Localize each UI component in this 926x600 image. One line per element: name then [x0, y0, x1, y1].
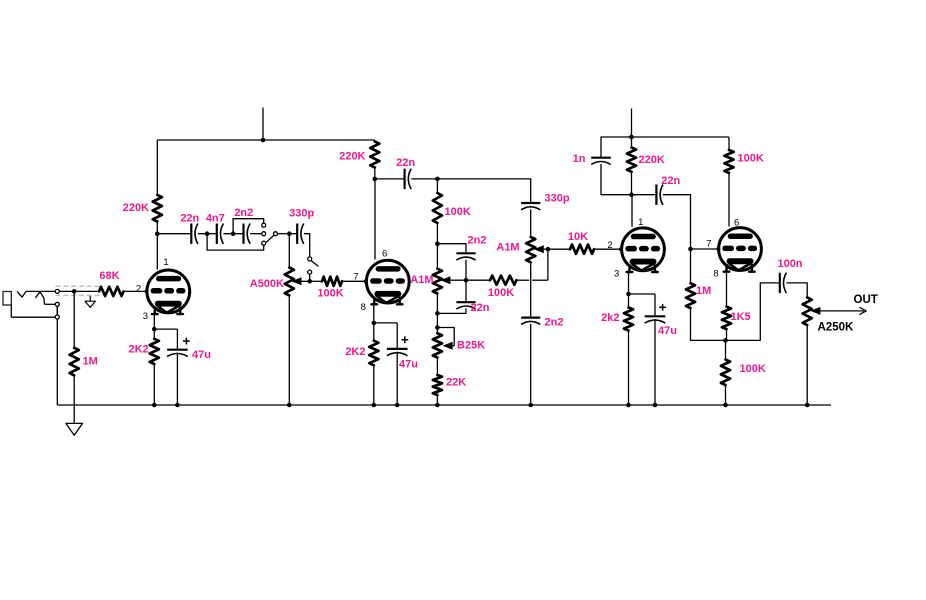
node A500K wiper	[307, 279, 312, 284]
potentiometer A250K	[803, 297, 812, 325]
wire 330p to switch	[304, 234, 310, 257]
wiper A500K	[292, 277, 302, 285]
wire tone mid1	[436, 223, 438, 244]
wire 2n2 branch top	[437, 244, 466, 253]
resistor 220K V3	[627, 148, 636, 172]
svg-text:1M: 1M	[83, 356, 98, 368]
wire 4n7-2n2	[223, 233, 242, 235]
resistor 100K V4 lower	[721, 360, 730, 386]
wire input node	[59, 290, 99, 292]
wire 100K to V2 grid	[342, 280, 365, 282]
wire V1 plate to 22n	[158, 233, 190, 235]
wire 2n2 tone bottom	[530, 324, 532, 405]
wire jack sleeve return	[10, 305, 12, 317]
node tone top	[435, 177, 440, 182]
capacitor 2n2 tone	[521, 317, 540, 319]
wiper A250K out	[810, 307, 820, 315]
svg-text:22n: 22n	[471, 302, 490, 314]
node B+ right	[629, 135, 634, 140]
arrow OUT head	[859, 307, 866, 314]
svg-text:2n2: 2n2	[234, 207, 253, 219]
node V4 grid entry	[716, 247, 720, 251]
wire plate to 22n V3	[632, 194, 656, 196]
capacitor 330p tone	[521, 202, 540, 204]
wire ring-sleeve link	[56, 306, 58, 315]
wire 1n branch	[600, 137, 603, 157]
capacitor 47u V1	[167, 349, 188, 351]
svg-text:2K2: 2K2	[129, 344, 149, 356]
node rail A500K	[287, 403, 292, 408]
svg-text:A1M: A1M	[410, 274, 433, 286]
wire 47u V1 bottom	[176, 353, 178, 406]
node V2 plate	[373, 177, 378, 182]
node V4 grid	[688, 247, 693, 252]
wire 100K V4 leads	[728, 137, 730, 150]
svg-text:100K: 100K	[740, 363, 766, 375]
wire jack ground drop	[56, 319, 58, 405]
svg-text:2: 2	[607, 240, 612, 251]
wire B+ rail left	[157, 139, 374, 141]
svg-text:OUT: OUT	[854, 294, 878, 306]
node rail 100K V4	[723, 403, 728, 408]
svg-text:A500K: A500K	[250, 278, 284, 290]
wire 1K5 bottom	[726, 329, 728, 340]
wire 1M bottom	[73, 375, 75, 405]
svg-text:22K: 22K	[446, 377, 466, 389]
svg-text:330p: 330p	[545, 193, 570, 205]
node V2 cathode	[372, 321, 377, 326]
tube V3 triode	[622, 228, 665, 272]
svg-text:1n: 1n	[573, 153, 586, 165]
svg-text:2K2: 2K2	[345, 346, 365, 358]
svg-text:10K: 10K	[568, 231, 588, 243]
wire jack tip to contact	[26, 290, 55, 292]
switch S1 lever	[266, 236, 273, 243]
wire V1 cathode pin3	[153, 314, 155, 329]
wire wiper node to 100K mid	[466, 279, 490, 281]
svg-text:220K: 220K	[339, 151, 365, 163]
resistor 220K V1	[153, 195, 162, 222]
svg-text:A1M: A1M	[496, 242, 519, 254]
wire out branch	[726, 283, 780, 341]
wire ground rail	[57, 404, 831, 406]
node rail 2k2 V3	[626, 403, 631, 408]
svg-text:68K: 68K	[99, 270, 119, 282]
wire to 330p	[289, 233, 296, 235]
wire 2K2 V1 bottom	[153, 364, 155, 405]
svg-text:2n2: 2n2	[545, 317, 564, 329]
node rail 47u V2	[395, 403, 400, 408]
capacitor 2n2 bright	[242, 224, 244, 244]
switch S1 contact top	[262, 223, 266, 227]
svg-text:1: 1	[163, 257, 168, 268]
wire volume top lead	[288, 234, 290, 268]
resistor 100K tone	[433, 193, 442, 223]
wire 47u V2 bottom	[396, 352, 398, 405]
wire 22n V3 to V4 grid	[663, 195, 691, 249]
wire V4 cathode pin8	[726, 272, 728, 307]
svg-text:6: 6	[382, 249, 387, 260]
capacitor 2n2 treble	[456, 252, 475, 254]
wire 10K to V3 grid	[594, 248, 621, 250]
wire B+ stub right	[631, 109, 633, 138]
svg-text:4n7: 4n7	[206, 213, 225, 225]
svg-text:100K: 100K	[488, 287, 514, 299]
potentiometer A1M treble	[433, 269, 442, 294]
node V1 cathode	[152, 327, 157, 332]
svg-text:7: 7	[353, 271, 358, 282]
wire 2k2 V3 top	[628, 294, 630, 308]
wire B25K-22K	[436, 358, 438, 376]
svg-text:1M: 1M	[696, 285, 711, 297]
wire 22n mid bottom	[437, 309, 466, 314]
wire tone 100K top	[436, 179, 438, 193]
svg-text:2k2: 2k2	[601, 312, 619, 324]
node V1 grid entry	[145, 289, 149, 293]
wire 47u V2 branch	[374, 322, 397, 324]
svg-text:47u: 47u	[658, 325, 677, 337]
wire cathode jog	[726, 339, 727, 341]
svg-text:1K5: 1K5	[731, 311, 751, 323]
svg-text:47u: 47u	[399, 359, 418, 371]
wire 47u V3 branch	[629, 293, 656, 295]
input jack tip contact	[17, 291, 26, 297]
wire 330p to A1M mid	[530, 209, 532, 237]
resistor 2K2 V1	[150, 339, 159, 364]
wire 2k2 V3 bottom	[628, 331, 630, 406]
tube V1 triode	[147, 270, 190, 314]
wire 2K2 V2 bottom	[373, 365, 375, 405]
svg-text:6: 6	[734, 218, 739, 229]
node rail 2n2 tone	[528, 403, 533, 408]
node rail 22K	[435, 403, 440, 408]
wire grid entry V4	[691, 248, 719, 250]
wire V2 plate pin6	[374, 179, 376, 260]
node rail 2K2 V1	[152, 403, 157, 408]
capacitor 4n7 bright	[216, 224, 218, 244]
wire wiper to 10K	[550, 248, 570, 250]
node rail A250K	[805, 403, 810, 408]
svg-text:100n: 100n	[777, 258, 802, 270]
node B25K top	[435, 325, 440, 330]
wire jack switch to terminal	[45, 303, 56, 305]
svg-text:47u: 47u	[192, 349, 211, 361]
node V2 grid entry	[364, 279, 368, 283]
node A bright	[205, 231, 210, 236]
wire bypass bottom	[207, 234, 264, 250]
capacitor 22n bass	[456, 301, 475, 303]
wiper A1M treble	[440, 276, 450, 284]
wire 2K2 V2 top	[373, 323, 375, 341]
wire 100K V4 lower bottom	[725, 385, 727, 405]
wire V2 plate jog	[374, 178, 377, 180]
node A1M mid wiper	[546, 247, 551, 252]
wire volume bottom	[288, 296, 290, 406]
svg-text:7: 7	[706, 238, 711, 249]
svg-text:22n: 22n	[180, 213, 199, 225]
capacitor 330p bright	[296, 224, 298, 244]
tube V2 triode	[366, 260, 409, 304]
resistor 100K V4 plate	[724, 150, 733, 173]
wire 2K2 V1 top	[153, 329, 155, 339]
wire 100K V4 lower top	[725, 340, 727, 359]
shield dashed lower	[56, 294, 100, 296]
node rail 2K2 V2	[372, 403, 377, 408]
wire 2n2 to wiper node	[465, 260, 467, 281]
wire bypass top	[233, 219, 264, 234]
capacitor 22n coupling V2	[404, 169, 406, 189]
wire 1M top	[73, 291, 75, 347]
wire tone top right	[437, 179, 530, 203]
jack terminal ring	[55, 302, 59, 306]
svg-text:220K: 220K	[639, 154, 665, 166]
capacitor 22n bright	[190, 224, 192, 244]
svg-text:100K: 100K	[738, 153, 764, 165]
node treble top	[435, 241, 440, 246]
wire 1M V4 leads	[690, 249, 692, 283]
svg-text:8: 8	[713, 268, 718, 279]
wire wiper to 22n mid	[465, 280, 467, 302]
wire plate to 22n V2	[375, 178, 404, 180]
wire V3 plate pin1	[631, 195, 633, 227]
potentiometer A1M mid	[526, 237, 535, 262]
wire A1M treble top lead	[436, 244, 438, 269]
resistor 2K2 V2	[369, 341, 378, 366]
wire A250K bottom	[806, 325, 808, 405]
switch S2 lever	[311, 261, 318, 267]
wiper A1M mid	[534, 245, 544, 253]
wire 22n V2 to tone	[411, 178, 437, 180]
node treble bottom	[435, 311, 440, 316]
shield dashed upper	[56, 285, 100, 287]
resistor 10K	[570, 245, 594, 254]
tube V4 triode	[719, 228, 762, 272]
svg-text:A250K: A250K	[818, 322, 854, 334]
node V3 grid entry	[619, 247, 623, 251]
svg-text:100K: 100K	[317, 287, 343, 299]
input jack switching contact	[36, 292, 45, 305]
wire 22n-4n7	[198, 233, 216, 235]
wire V2 cathode pin8	[373, 305, 375, 323]
node V3 cathode	[626, 292, 631, 297]
wire wiper to 100K	[310, 280, 322, 282]
svg-text:220K: 220K	[123, 202, 149, 214]
capacitor 1n feedback	[591, 157, 611, 159]
node volume top	[287, 231, 292, 236]
svg-text:3: 3	[614, 269, 619, 280]
resistor 68K	[99, 287, 124, 296]
svg-text:B25K: B25K	[457, 340, 485, 352]
switch S1 pole	[274, 232, 278, 236]
svg-text:22n: 22n	[396, 157, 415, 169]
wire B+ stub left	[262, 108, 264, 141]
wire up to wiper	[547, 249, 549, 280]
node rail 47u V3	[653, 403, 658, 408]
switch S2 contact top	[308, 257, 312, 261]
switch S2 contact bottom	[308, 270, 312, 274]
svg-text:22n: 22n	[661, 175, 680, 187]
resistor 1M V4	[686, 283, 695, 308]
resistor 2k2 V3	[624, 308, 633, 331]
wire B+ rail right	[601, 136, 730, 138]
input jack J1 sleeve	[3, 292, 11, 306]
resistor 220K V2	[370, 142, 379, 168]
wire 2n2 to switch	[250, 233, 262, 235]
node V4 cathode out	[723, 338, 728, 343]
wire pole to volume	[278, 233, 290, 235]
resistor 100K mid	[490, 276, 517, 285]
jack terminal sleeve	[55, 315, 59, 319]
svg-text:1: 1	[638, 217, 643, 228]
wiper B25K	[437, 328, 454, 346]
svg-text:8: 8	[361, 302, 366, 313]
wire 100n to A250K	[786, 283, 807, 298]
wire treble-B25K	[436, 313, 438, 333]
resistor 22K	[433, 375, 442, 395]
capacitor 22n coupling V3	[655, 185, 657, 205]
wire V1 plate pin1	[156, 234, 158, 270]
node input grid	[72, 289, 77, 294]
potentiometer B25K	[433, 333, 442, 357]
svg-text:3: 3	[143, 311, 148, 322]
svg-text:2: 2	[136, 284, 141, 295]
node V1 plate	[155, 231, 160, 236]
node treble wiper	[464, 278, 469, 283]
resistor 1M	[70, 348, 79, 376]
jack terminal tip	[55, 289, 59, 293]
wire switch to wiper node	[309, 274, 311, 281]
wire 47u V1 branch	[154, 328, 177, 330]
shield ground symbol	[89, 296, 91, 301]
wire V3 cathode pin3	[628, 272, 630, 294]
resistor 100K grid V2	[322, 277, 342, 286]
node V3 plate	[629, 192, 634, 197]
ground main	[73, 405, 75, 423]
wire 22K bottom	[436, 395, 438, 405]
svg-text:2n2: 2n2	[468, 235, 487, 247]
capacitor 100n out	[779, 273, 781, 293]
node B bright	[231, 231, 236, 236]
wire A1M treble bottom lead	[436, 294, 438, 314]
svg-text:330p: 330p	[289, 208, 314, 220]
resistor 1K5	[722, 307, 731, 330]
capacitor 47u V2	[387, 348, 408, 350]
capacitor 47u V3	[645, 315, 666, 317]
wire 68K to V1 grid	[124, 290, 147, 292]
wire 220K V3 leads	[631, 137, 633, 148]
svg-text:100K: 100K	[445, 206, 471, 218]
switch S1 contact mid	[262, 232, 266, 236]
potentiometer A500K	[285, 268, 294, 296]
switch S1 contact bottom	[262, 241, 266, 245]
node rail 47u V1	[175, 403, 180, 408]
wire 47u V3 bottom	[654, 319, 656, 405]
wire 220K V2 bottom	[374, 168, 376, 179]
wire A1M mid lower	[530, 262, 532, 317]
wire 100K mid crossing	[517, 279, 530, 281]
node B+ left	[261, 138, 266, 143]
wire 220K V1 bottom	[156, 222, 158, 234]
wire 220K V1 top	[156, 140, 158, 195]
